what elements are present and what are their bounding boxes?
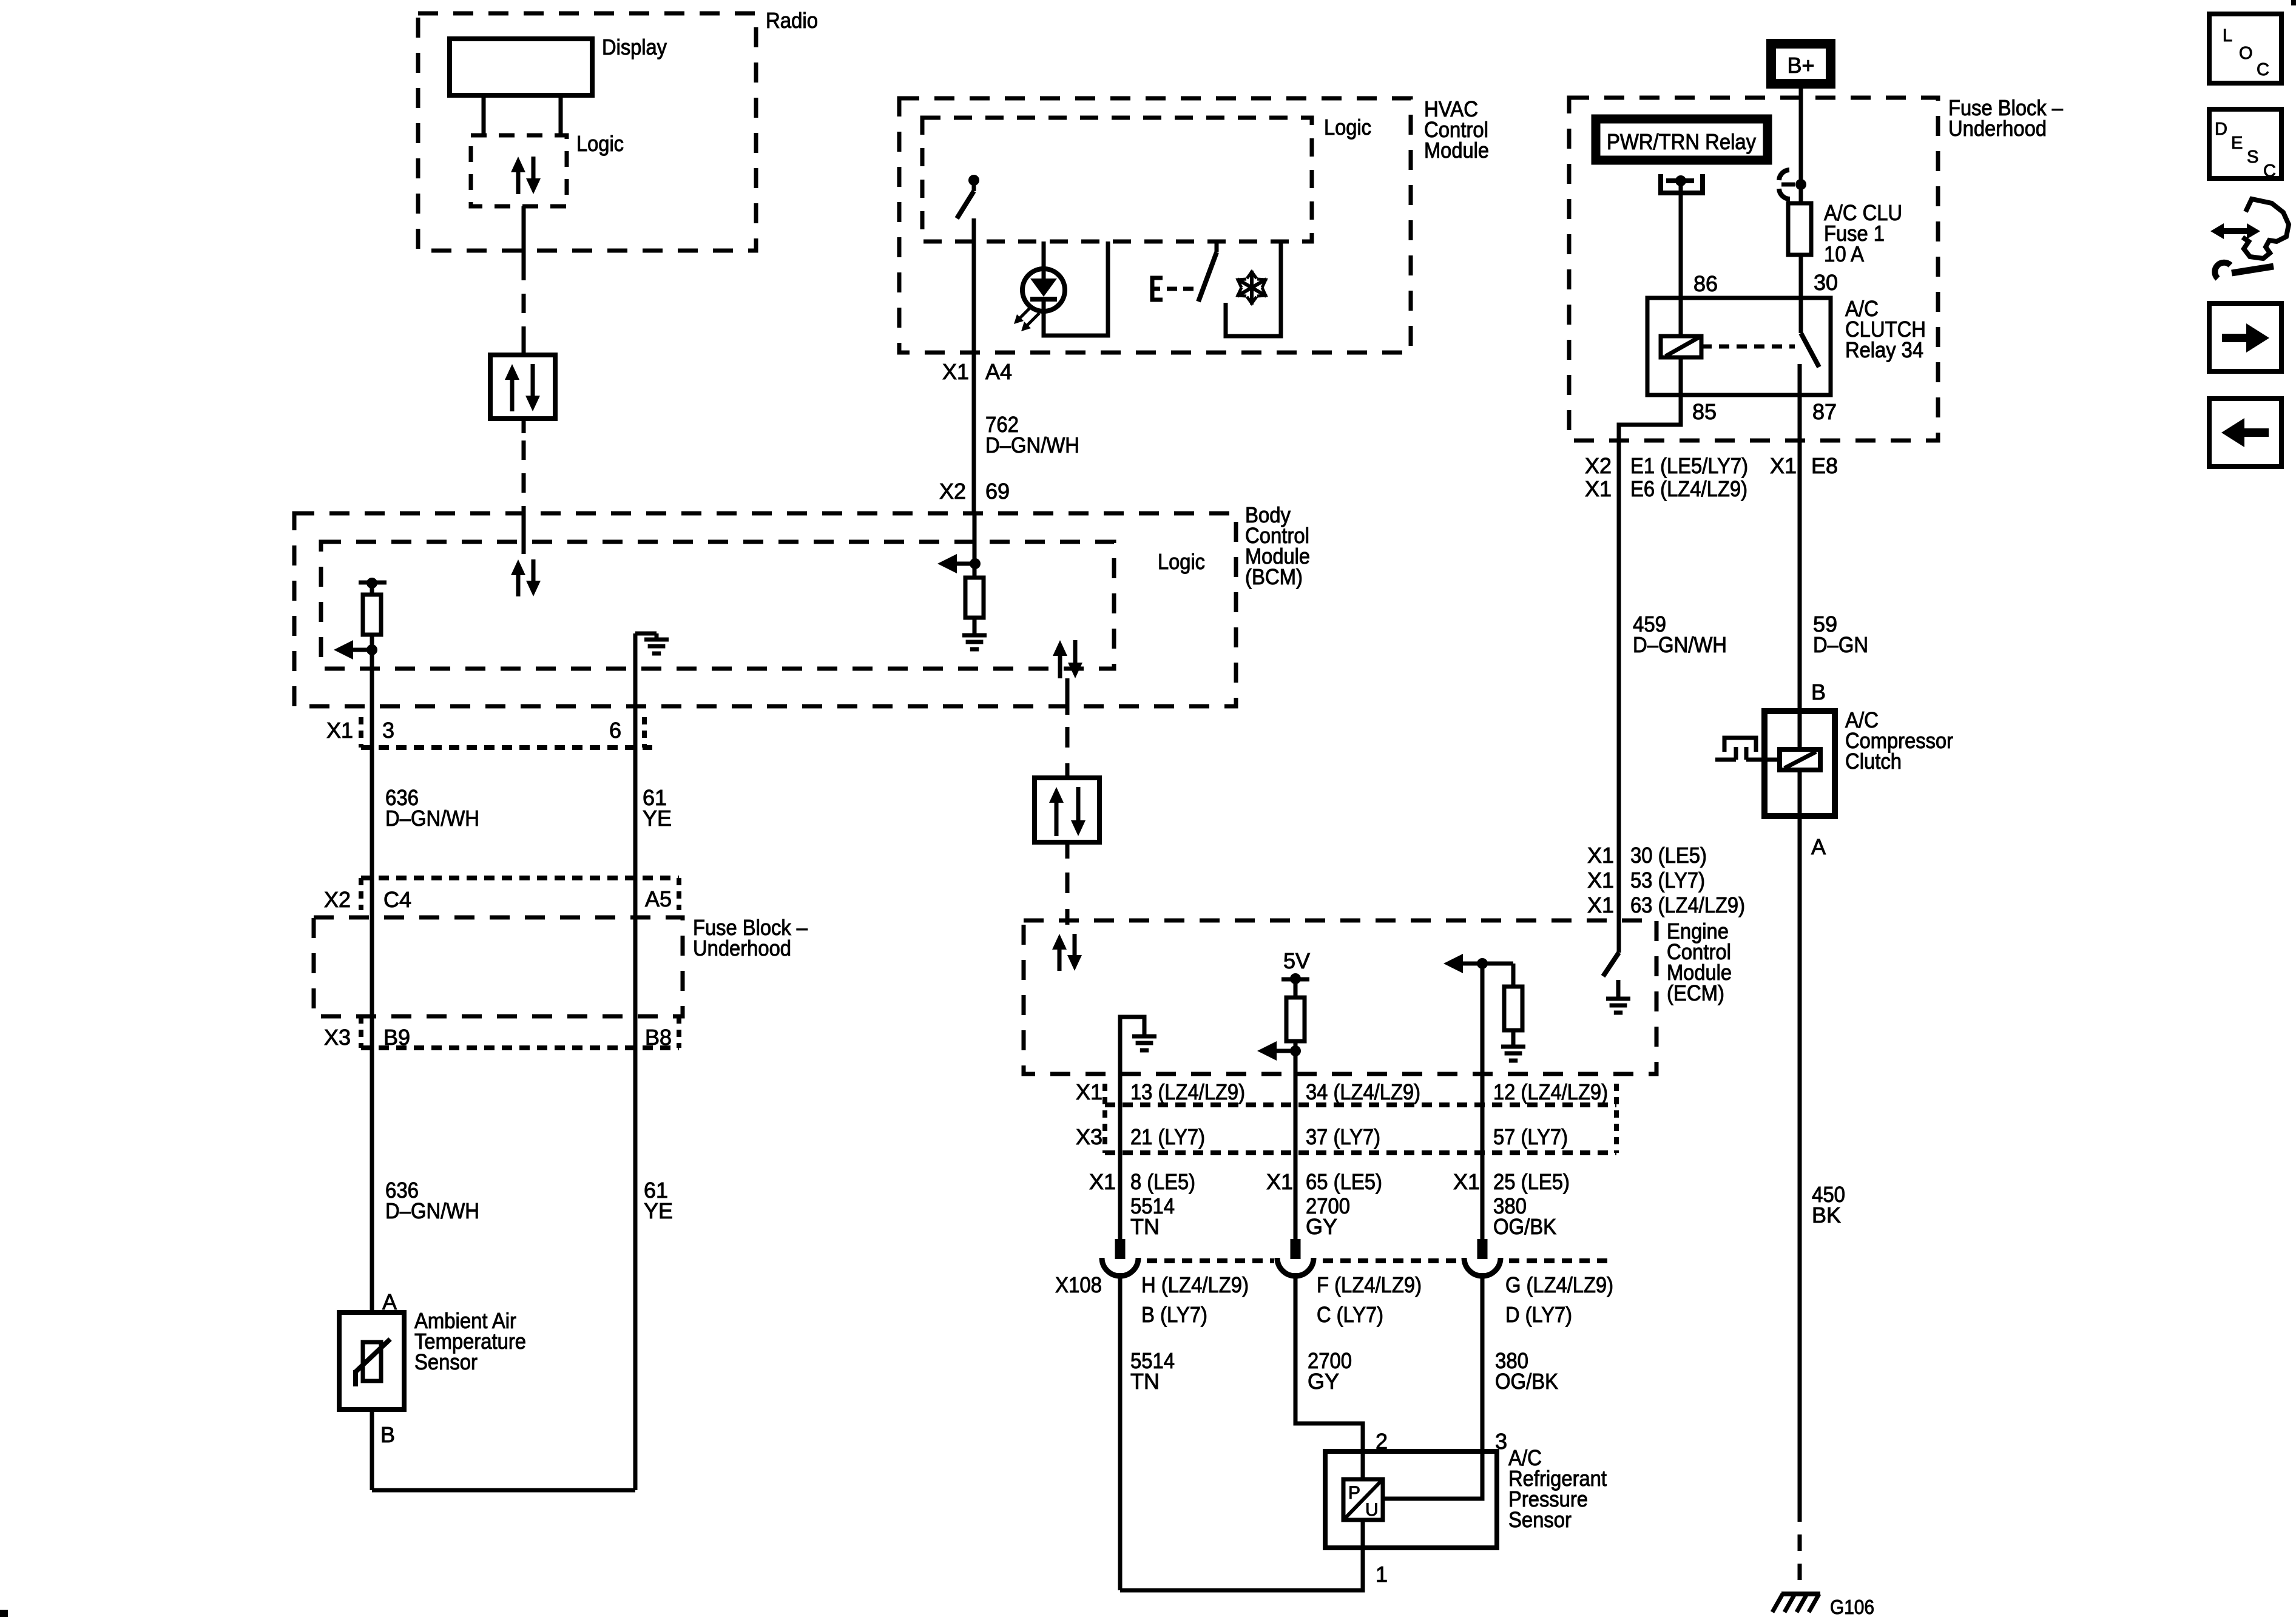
svg-text:GY: GY bbox=[1308, 1369, 1339, 1394]
svg-text:X2: X2 bbox=[1585, 453, 1612, 478]
svg-text:E8: E8 bbox=[1811, 453, 1838, 478]
svg-text:GY: GY bbox=[1306, 1214, 1337, 1239]
ECM driver arrow for 2700 bbox=[1257, 1041, 1277, 1061]
svg-text:Sensor: Sensor bbox=[414, 1349, 478, 1374]
wire 5514 X108 to sensor loop bbox=[1118, 1273, 1123, 1590]
HVAC Logic dashed box bbox=[922, 118, 1312, 241]
svg-text:P: P bbox=[1348, 1483, 1360, 1503]
svg-text:Underhood: Underhood bbox=[693, 936, 791, 960]
icon LOC box bbox=[2209, 14, 2281, 83]
svg-text:TN: TN bbox=[1130, 1369, 1160, 1394]
svg-text:BK: BK bbox=[1812, 1203, 1841, 1227]
svg-text:1: 1 bbox=[1376, 1562, 1388, 1587]
wire 762 from HVAC switch bbox=[972, 218, 976, 513]
svg-text:X1: X1 bbox=[1770, 453, 1797, 478]
BCM serial data arrows right bbox=[1058, 653, 1062, 678]
BCM ground for ckt 61 bbox=[633, 633, 638, 643]
Radio module dashed box bbox=[418, 13, 756, 251]
svg-text:87: 87 bbox=[1812, 399, 1837, 424]
B+ battery feed box bbox=[1771, 44, 1831, 84]
ECM serial data arrows bbox=[1058, 947, 1062, 971]
LED branch bracket wire bbox=[1044, 241, 1108, 336]
svg-text:H (LZ4/LZ9): H (LZ4/LZ9) bbox=[1141, 1272, 1249, 1297]
svg-text:OG/BK: OG/BK bbox=[1495, 1369, 1558, 1394]
BCM output driver for ckt 636 bbox=[359, 581, 387, 585]
wire display right lead bbox=[559, 95, 563, 135]
wire 380 inside sensor bbox=[1383, 1451, 1482, 1499]
svg-text:D–GN/WH: D–GN/WH bbox=[385, 806, 479, 831]
icon shortcut wrench bbox=[2220, 228, 2250, 234]
svg-text:63 (LZ4/LZ9): 63 (LZ4/LZ9) bbox=[1630, 893, 1745, 917]
svg-text:65 (LE5): 65 (LE5) bbox=[1306, 1169, 1382, 1194]
wire 380 X108 to sensor pin 3 bbox=[1481, 1273, 1485, 1451]
connector row X3 pins B9 B8 bbox=[361, 1045, 679, 1050]
svg-text:X1: X1 bbox=[1266, 1169, 1293, 1194]
ECM switch ground bbox=[1616, 980, 1621, 997]
svg-text:TN: TN bbox=[1130, 1214, 1160, 1239]
connector row X1 pins 3 and 6 bbox=[361, 745, 652, 750]
serial data link symbol S1 bbox=[522, 337, 526, 355]
icon forward arrow box bbox=[2209, 303, 2281, 371]
wire serial data BCM to S2 bbox=[1065, 678, 1070, 715]
svg-text:Module: Module bbox=[1424, 138, 1489, 163]
svg-text:Radio: Radio bbox=[766, 8, 818, 33]
svg-text:X1: X1 bbox=[326, 718, 353, 743]
svg-text:D–GN/WH: D–GN/WH bbox=[985, 433, 1079, 457]
svg-text:E1 (LE5/LY7): E1 (LE5/LY7) bbox=[1630, 453, 1748, 478]
svg-text:B (LY7): B (LY7) bbox=[1141, 1302, 1207, 1327]
page corner mark bottom left bbox=[0, 1610, 8, 1617]
ECM input for 380 bbox=[1443, 954, 1463, 973]
svg-text:X1: X1 bbox=[1587, 893, 1614, 917]
BCM Logic dashed box bbox=[321, 542, 1114, 669]
svg-text:D (LY7): D (LY7) bbox=[1505, 1302, 1572, 1327]
fuse clip terminal bbox=[1779, 170, 1789, 180]
svg-text:A4: A4 bbox=[985, 359, 1012, 384]
svg-text:5V: 5V bbox=[1283, 948, 1310, 973]
svg-text:B8: B8 bbox=[645, 1025, 672, 1050]
svg-text:PWR/TRN Relay: PWR/TRN Relay bbox=[1607, 129, 1756, 154]
wire fuse to relay 30 bbox=[1799, 255, 1803, 298]
svg-text:10 A: 10 A bbox=[1824, 241, 1864, 266]
svg-text:3: 3 bbox=[382, 718, 394, 743]
Fuse Block Underhood dashed box right bbox=[1569, 98, 1938, 441]
HVAC logic switch bbox=[968, 175, 979, 186]
wire bottom loop ambient sensor bbox=[370, 1409, 374, 1490]
svg-text:57 (LY7): 57 (LY7) bbox=[1493, 1124, 1568, 1149]
svg-text:C: C bbox=[2257, 60, 2269, 79]
svg-text:13 (LZ4/LZ9): 13 (LZ4/LZ9) bbox=[1130, 1079, 1245, 1104]
svg-text:O: O bbox=[2239, 44, 2253, 63]
relay coil bbox=[1679, 298, 1683, 336]
svg-text:X2: X2 bbox=[324, 887, 351, 912]
svg-text:X108: X108 bbox=[1055, 1272, 1102, 1297]
A/C request E contact bbox=[1152, 278, 1163, 300]
svg-text:C4: C4 bbox=[383, 887, 411, 912]
svg-text:85: 85 bbox=[1692, 399, 1717, 424]
serial data arrows in radio logic bbox=[516, 170, 521, 194]
ECM ground branch for 5514 bbox=[1120, 1017, 1144, 1074]
relay actuation dashed link bbox=[1701, 345, 1795, 349]
pressure transducer P/U symbol bbox=[1361, 1451, 1365, 1479]
wire serial data below radio logic bbox=[522, 206, 526, 261]
svg-text:G106: G106 bbox=[1830, 1596, 1874, 1617]
wire serial data from S1 to BCM bbox=[522, 419, 526, 433]
svg-text:D–GN/WH: D–GN/WH bbox=[1633, 632, 1727, 657]
svg-text:25 (LE5): 25 (LE5) bbox=[1493, 1169, 1570, 1194]
wire relay 85 to ECM bbox=[1619, 395, 1681, 953]
relay switch bbox=[1799, 298, 1803, 333]
A/C request bracket wire bbox=[1226, 241, 1281, 336]
svg-text:X1: X1 bbox=[1587, 868, 1614, 893]
wire 5514 ECM to X108 bbox=[1118, 1074, 1123, 1250]
PWR/TRN relay output terminal bbox=[1661, 174, 1703, 193]
svg-text:F (LZ4/LZ9): F (LZ4/LZ9) bbox=[1317, 1272, 1422, 1297]
svg-text:30 (LE5): 30 (LE5) bbox=[1630, 843, 1707, 868]
svg-text:86: 86 bbox=[1693, 271, 1718, 296]
Body Control Module dashed box bbox=[294, 513, 1236, 706]
svg-text:53 (LY7): 53 (LY7) bbox=[1630, 868, 1705, 893]
svg-text:E6 (LZ4/LZ9): E6 (LZ4/LZ9) bbox=[1630, 476, 1747, 501]
svg-text:D: D bbox=[2215, 120, 2227, 139]
svg-text:X1: X1 bbox=[1453, 1169, 1480, 1194]
Radio Logic dashed box bbox=[471, 135, 567, 206]
svg-text:S: S bbox=[2247, 147, 2258, 167]
wire sensor pin 1 return bbox=[1361, 1520, 1365, 1548]
svg-text:YE: YE bbox=[643, 806, 672, 831]
HVAC Control Module dashed box bbox=[899, 98, 1411, 353]
svg-text:69: 69 bbox=[985, 479, 1010, 504]
wire relay 87 down bbox=[1798, 395, 1802, 711]
svg-text:G (LZ4/LZ9): G (LZ4/LZ9) bbox=[1505, 1272, 1613, 1297]
svg-text:37 (LY7): 37 (LY7) bbox=[1306, 1124, 1380, 1149]
wire 380 inside ECM bbox=[1481, 964, 1485, 1074]
A/C request switch blade bbox=[1215, 241, 1219, 252]
svg-text:X1: X1 bbox=[1587, 843, 1614, 868]
svg-text:B+: B+ bbox=[1787, 53, 1814, 78]
BCM input for ckt 762 bbox=[937, 554, 957, 573]
svg-text:Logic: Logic bbox=[1324, 115, 1371, 140]
svg-text:6: 6 bbox=[609, 718, 621, 743]
wire PWR/TRN relay to coil bbox=[1679, 182, 1683, 336]
serial data link symbol S2 bbox=[1035, 778, 1099, 842]
wire B+ to fuse bbox=[1799, 89, 1803, 203]
svg-text:A: A bbox=[1811, 834, 1826, 859]
ECM connector dashed outline bbox=[1105, 1102, 1616, 1107]
Display component bbox=[450, 39, 592, 95]
A/C indicator LED bbox=[1042, 241, 1046, 280]
A/C CLU Fuse 1 10A bbox=[1788, 203, 1811, 255]
svg-text:X3: X3 bbox=[324, 1025, 351, 1050]
svg-text:30: 30 bbox=[1814, 270, 1838, 295]
icon back arrow box bbox=[2209, 399, 2281, 467]
A/C Refrigerant Pressure Sensor box bbox=[1325, 1451, 1497, 1548]
wire serial data S2 to ECM bbox=[1065, 842, 1070, 859]
svg-text:Clutch: Clutch bbox=[1845, 749, 1902, 774]
svg-text:C: C bbox=[2263, 161, 2276, 181]
wire display left lead bbox=[482, 95, 486, 135]
svg-text:YE: YE bbox=[644, 1198, 673, 1223]
svg-text:Logic: Logic bbox=[576, 131, 624, 156]
svg-text:A5: A5 bbox=[645, 886, 672, 911]
wire 636 D-GN/WH down from BCM bbox=[370, 650, 374, 1312]
in-line connector X108 bbox=[1115, 1239, 1126, 1259]
svg-text:B9: B9 bbox=[383, 1025, 410, 1050]
serial data arrows at BCM entry bbox=[516, 573, 521, 596]
svg-text:B: B bbox=[1811, 680, 1826, 704]
Engine Control Module dashed box bbox=[1024, 920, 1656, 1074]
svg-text:X1: X1 bbox=[1585, 476, 1612, 501]
svg-text:X1: X1 bbox=[1089, 1169, 1116, 1194]
svg-text:Logic: Logic bbox=[1158, 549, 1205, 574]
connector row X2 pins C4 A5 bbox=[361, 876, 679, 880]
svg-text:B: B bbox=[380, 1422, 395, 1447]
svg-text:Sensor: Sensor bbox=[1508, 1507, 1572, 1532]
svg-text:(BCM): (BCM) bbox=[1245, 564, 1303, 589]
svg-text:U: U bbox=[1365, 1500, 1379, 1520]
page corner mark top right bbox=[2291, 0, 2296, 5]
svg-text:8 (LE5): 8 (LE5) bbox=[1130, 1169, 1195, 1194]
snowflake symbol bbox=[1250, 271, 1254, 305]
svg-text:Underhood: Underhood bbox=[1948, 116, 2047, 141]
thermistor symbol bbox=[363, 1342, 381, 1381]
clutch thermal fuse bbox=[1715, 738, 1780, 760]
ECM switch for A/C relay control bbox=[1603, 953, 1619, 976]
wire 380 ECM to X108 bbox=[1481, 1074, 1485, 1250]
Fuse Block Underhood dashed box left bbox=[314, 917, 683, 1016]
PWR/TRN Relay feed box bbox=[1596, 119, 1768, 160]
svg-text:Display: Display bbox=[602, 35, 667, 59]
svg-text:(ECM): (ECM) bbox=[1667, 981, 1724, 1005]
svg-text:X2: X2 bbox=[939, 479, 966, 504]
svg-text:OG/BK: OG/BK bbox=[1493, 1214, 1556, 1239]
wire 762 into BCM bbox=[973, 513, 977, 564]
svg-text:C (LY7): C (LY7) bbox=[1317, 1302, 1383, 1327]
A/C Clutch Relay box bbox=[1647, 298, 1831, 395]
svg-text:D–GN: D–GN bbox=[1813, 632, 1868, 657]
svg-text:X3: X3 bbox=[1076, 1124, 1102, 1149]
clutch coil bbox=[1780, 749, 1820, 770]
svg-text:E: E bbox=[2231, 133, 2243, 153]
wire 2700 X108 to sensor pin 2 bbox=[1295, 1273, 1363, 1451]
svg-text:X1: X1 bbox=[942, 359, 969, 384]
svg-text:D–GN/WH: D–GN/WH bbox=[385, 1198, 479, 1223]
wire dashed to G106 bbox=[1798, 1505, 1802, 1590]
ground G106 symbol bbox=[1781, 1592, 1820, 1596]
svg-text:X1: X1 bbox=[1076, 1079, 1102, 1104]
wire 2700 ECM to X108 bbox=[1294, 1074, 1298, 1250]
svg-text:12 (LZ4/LZ9): 12 (LZ4/LZ9) bbox=[1493, 1079, 1608, 1104]
svg-text:21 (LY7): 21 (LY7) bbox=[1130, 1124, 1205, 1149]
wire 61 YE down from BCM bbox=[633, 633, 638, 1490]
svg-text:Relay 34: Relay 34 bbox=[1845, 337, 1923, 362]
icon DESC box bbox=[2209, 109, 2281, 178]
LED light arrows bbox=[1018, 306, 1032, 320]
wire 450 BK bbox=[1798, 816, 1802, 1505]
svg-text:L: L bbox=[2223, 26, 2232, 46]
svg-text:34 (LZ4/LZ9): 34 (LZ4/LZ9) bbox=[1306, 1079, 1420, 1104]
